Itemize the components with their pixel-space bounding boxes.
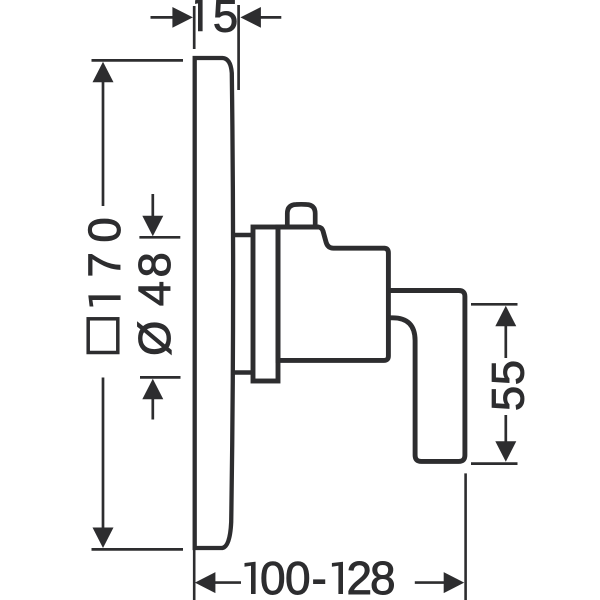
dimension 100-128 (bottom): [194, 473, 465, 600]
wire: dim170 upper line: [102, 81, 105, 206]
wire: dim48 bottom leader: [151, 398, 154, 420]
arrow: dim55 down: [495, 441, 516, 462]
label: square symbol: [88, 319, 118, 353]
sleeve collar: [253, 227, 278, 381]
node: sleeve bottom line: [231, 370, 253, 375]
svg-text:5: 5: [213, 0, 238, 42]
svg-text:Ø48: Ø48: [129, 252, 180, 356]
escutcheon plate (side view): [195, 58, 233, 548]
arrow: dim15 left: [172, 7, 193, 28]
wire: dim55 lower line: [504, 415, 507, 442]
label: 170: [88, 295, 120, 306]
wire: dim15 right extension line: [237, 5, 240, 90]
wire: dim100 left extension line: [193, 550, 196, 600]
dimension Ø48 (inner left): [139, 194, 180, 420]
wire: dim170 lower line: [102, 378, 105, 530]
wire: dim48 bottom tick: [140, 376, 181, 379]
svg-text:70: 70: [79, 217, 130, 277]
wire: dim15 left tail: [151, 16, 174, 19]
svg-text:55: 55: [483, 360, 534, 411]
wire: dim55 bottom tick: [471, 462, 518, 465]
valve body: [278, 227, 388, 360]
wire: dim48 top tick: [139, 236, 180, 239]
wire: dim170 top extension line: [92, 59, 184, 62]
wire: dim55 upper line: [504, 326, 507, 358]
arrow: dim15 right: [240, 7, 261, 28]
dimension 170 (left): [92, 60, 184, 549]
wire: dim170 bottom extension line: [92, 548, 184, 551]
dimension 15 (top): [151, 5, 282, 90]
node: sleeve top line: [231, 233, 253, 238]
wire: dim48 top leader: [151, 194, 154, 217]
arrow: dim100 right: [444, 572, 465, 593]
safety stop button: [287, 204, 315, 227]
arrow: dim170 down: [93, 528, 114, 549]
arrow: dim48 up: [142, 379, 163, 400]
wire: dim100 right tail: [415, 581, 445, 584]
arrow: dim48 down: [142, 216, 163, 237]
arrow: dim55 up: [495, 306, 516, 327]
dimension 55 (right): [471, 304, 518, 463]
svg-text:00-28: 00-28: [260, 552, 396, 600]
label: 15: [195, 0, 203, 31]
wire: dim15 right tail: [261, 16, 282, 19]
wire: dim100 right extension line: [464, 473, 467, 600]
wire: dim100 left tail: [215, 581, 242, 584]
arrow: dim100 left: [195, 572, 216, 593]
label: 100-128: [245, 562, 256, 594]
lever handle: [388, 291, 465, 462]
wire: dim55 top tick: [471, 303, 518, 306]
arrow: dim170 up: [93, 62, 114, 83]
wire: dim15 left extension line: [193, 6, 196, 49]
